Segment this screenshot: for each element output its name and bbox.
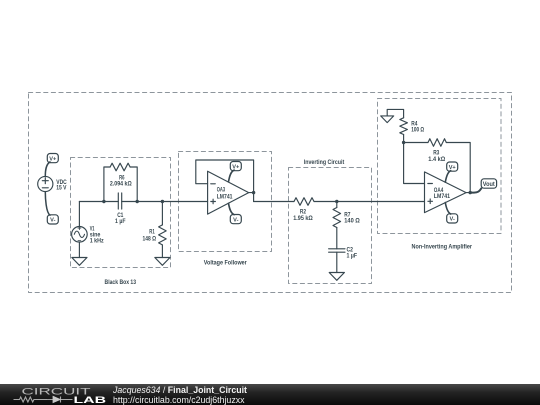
wire R7 to C2 <box>336 228 338 249</box>
junction OA3 output <box>252 191 255 194</box>
wire OA3 output to R2 <box>254 201 294 203</box>
capacitor C2 <box>329 249 345 252</box>
svg-text:LM741: LM741 <box>217 194 233 200</box>
junction at R6 right <box>136 200 139 203</box>
flag V- (VDC) <box>47 215 58 224</box>
flag V+ (VDC) <box>47 154 58 163</box>
flag V- (OA4) <box>447 214 458 223</box>
resistor R1 <box>159 225 167 245</box>
dashed box Voltage Follower <box>179 152 272 252</box>
flag V+ (OA4) <box>447 162 458 171</box>
dashed box Inverting Circuit <box>289 168 372 284</box>
wire V1 bottom lead <box>78 242 80 257</box>
wire R2 to OA4 + input <box>314 201 425 203</box>
ground (R4 net) <box>381 116 394 123</box>
wire R3 to output node <box>446 143 470 193</box>
wire R1 bottom lead <box>161 245 163 258</box>
resistor R3 <box>428 139 446 147</box>
junction at R6 left <box>102 200 105 203</box>
wire OA4 V+ tail <box>445 171 450 183</box>
svg-text:Non-Inverting Amplifier: Non-Inverting Amplifier <box>412 244 473 251</box>
voltage source V1 (sine) <box>72 227 88 243</box>
flag V+ (OA3) <box>230 162 241 171</box>
svg-text:V-: V- <box>233 217 238 223</box>
wire VDC top to V+ flag <box>45 162 50 177</box>
svg-text:LAB: LAB <box>74 395 107 405</box>
junction OA4 output <box>469 191 472 194</box>
svg-text:Voltage Follower: Voltage Follower <box>204 260 247 267</box>
junction at R1 top <box>161 200 164 203</box>
svg-text:OA3: OA3 <box>217 188 226 194</box>
logo diode <box>47 396 60 402</box>
svg-text:1.95 kΩ: 1.95 kΩ <box>293 215 313 222</box>
svg-text:V+: V+ <box>49 156 57 162</box>
svg-text:1 µF: 1 µF <box>347 253 358 260</box>
wire V1 top to main net <box>78 202 80 227</box>
wire ground to R4 top <box>387 109 403 117</box>
svg-text:LM741: LM741 <box>434 194 451 200</box>
voltage source VDC <box>38 176 53 191</box>
wire OA3 output stub <box>249 192 254 194</box>
svg-text:Vout: Vout <box>483 182 495 188</box>
wire C1 right plate to OA3 + input <box>122 201 208 203</box>
svg-text:V-: V- <box>450 217 455 223</box>
dashed box Non-Inverting Amplifier <box>378 99 502 234</box>
wire OA3 V+ tail <box>229 170 235 182</box>
svg-text:1 µF: 1 µF <box>115 218 126 225</box>
flag Vout <box>481 179 496 188</box>
wire OA3 V- tail <box>229 203 235 214</box>
ground (R1) <box>155 258 170 266</box>
wire R4 bottom to junction <box>403 135 405 143</box>
wire R6 right riser <box>130 167 137 202</box>
junction R7 top <box>335 200 338 203</box>
wire R1 top lead <box>161 202 163 225</box>
svg-text:1 kHz: 1 kHz <box>90 238 104 245</box>
resistor R7 <box>333 208 341 228</box>
svg-text:100 Ω: 100 Ω <box>411 127 424 134</box>
svg-text:V+: V+ <box>449 165 457 171</box>
svg-text:140 Ω: 140 Ω <box>344 218 360 225</box>
ground (V1) <box>72 258 87 266</box>
junction R4/R3/- input <box>402 141 405 144</box>
svg-text:15 V: 15 V <box>56 185 67 192</box>
logo resistor-diode line <box>14 397 73 403</box>
op-amp OA3 <box>208 171 249 214</box>
svg-text:Inverting Circuit: Inverting Circuit <box>304 159 345 166</box>
wire OA3 feedback loop (output to - input) <box>196 160 254 202</box>
capacitor C1 <box>118 193 121 209</box>
wire OA4 output stub <box>466 192 470 194</box>
svg-text:2.094 kΩ: 2.094 kΩ <box>110 181 132 188</box>
dashed box Black Box 13 <box>71 158 171 268</box>
wire C2 to ground <box>336 252 338 272</box>
wire main net V1 to C1 left plate <box>79 201 118 203</box>
svg-text:Black Box 13: Black Box 13 <box>105 279 137 286</box>
wire R7 top lead <box>336 202 338 208</box>
footer bar <box>0 384 540 405</box>
wire junction to R3 <box>404 142 428 144</box>
op-amp OA4 <box>425 172 467 213</box>
wire junction to OA4 - input <box>404 143 425 184</box>
flag V- (OA3) <box>230 215 241 224</box>
svg-text:1.4 kΩ: 1.4 kΩ <box>428 156 445 163</box>
ground (C2) <box>329 273 344 281</box>
svg-text:V+: V+ <box>232 164 240 170</box>
wire R6 left riser <box>104 167 110 202</box>
svg-text:148 Ω: 148 Ω <box>143 236 157 243</box>
wire OA4 V- tail <box>445 203 450 215</box>
resistor R6 <box>110 163 130 171</box>
resistor R4 <box>400 118 408 135</box>
wire output to Vout flag <box>470 188 481 192</box>
wire VDC bottom to V- flag <box>45 192 50 216</box>
outer dashed box <box>29 93 512 293</box>
svg-text:V-: V- <box>50 218 55 224</box>
resistor R2 <box>294 198 314 206</box>
